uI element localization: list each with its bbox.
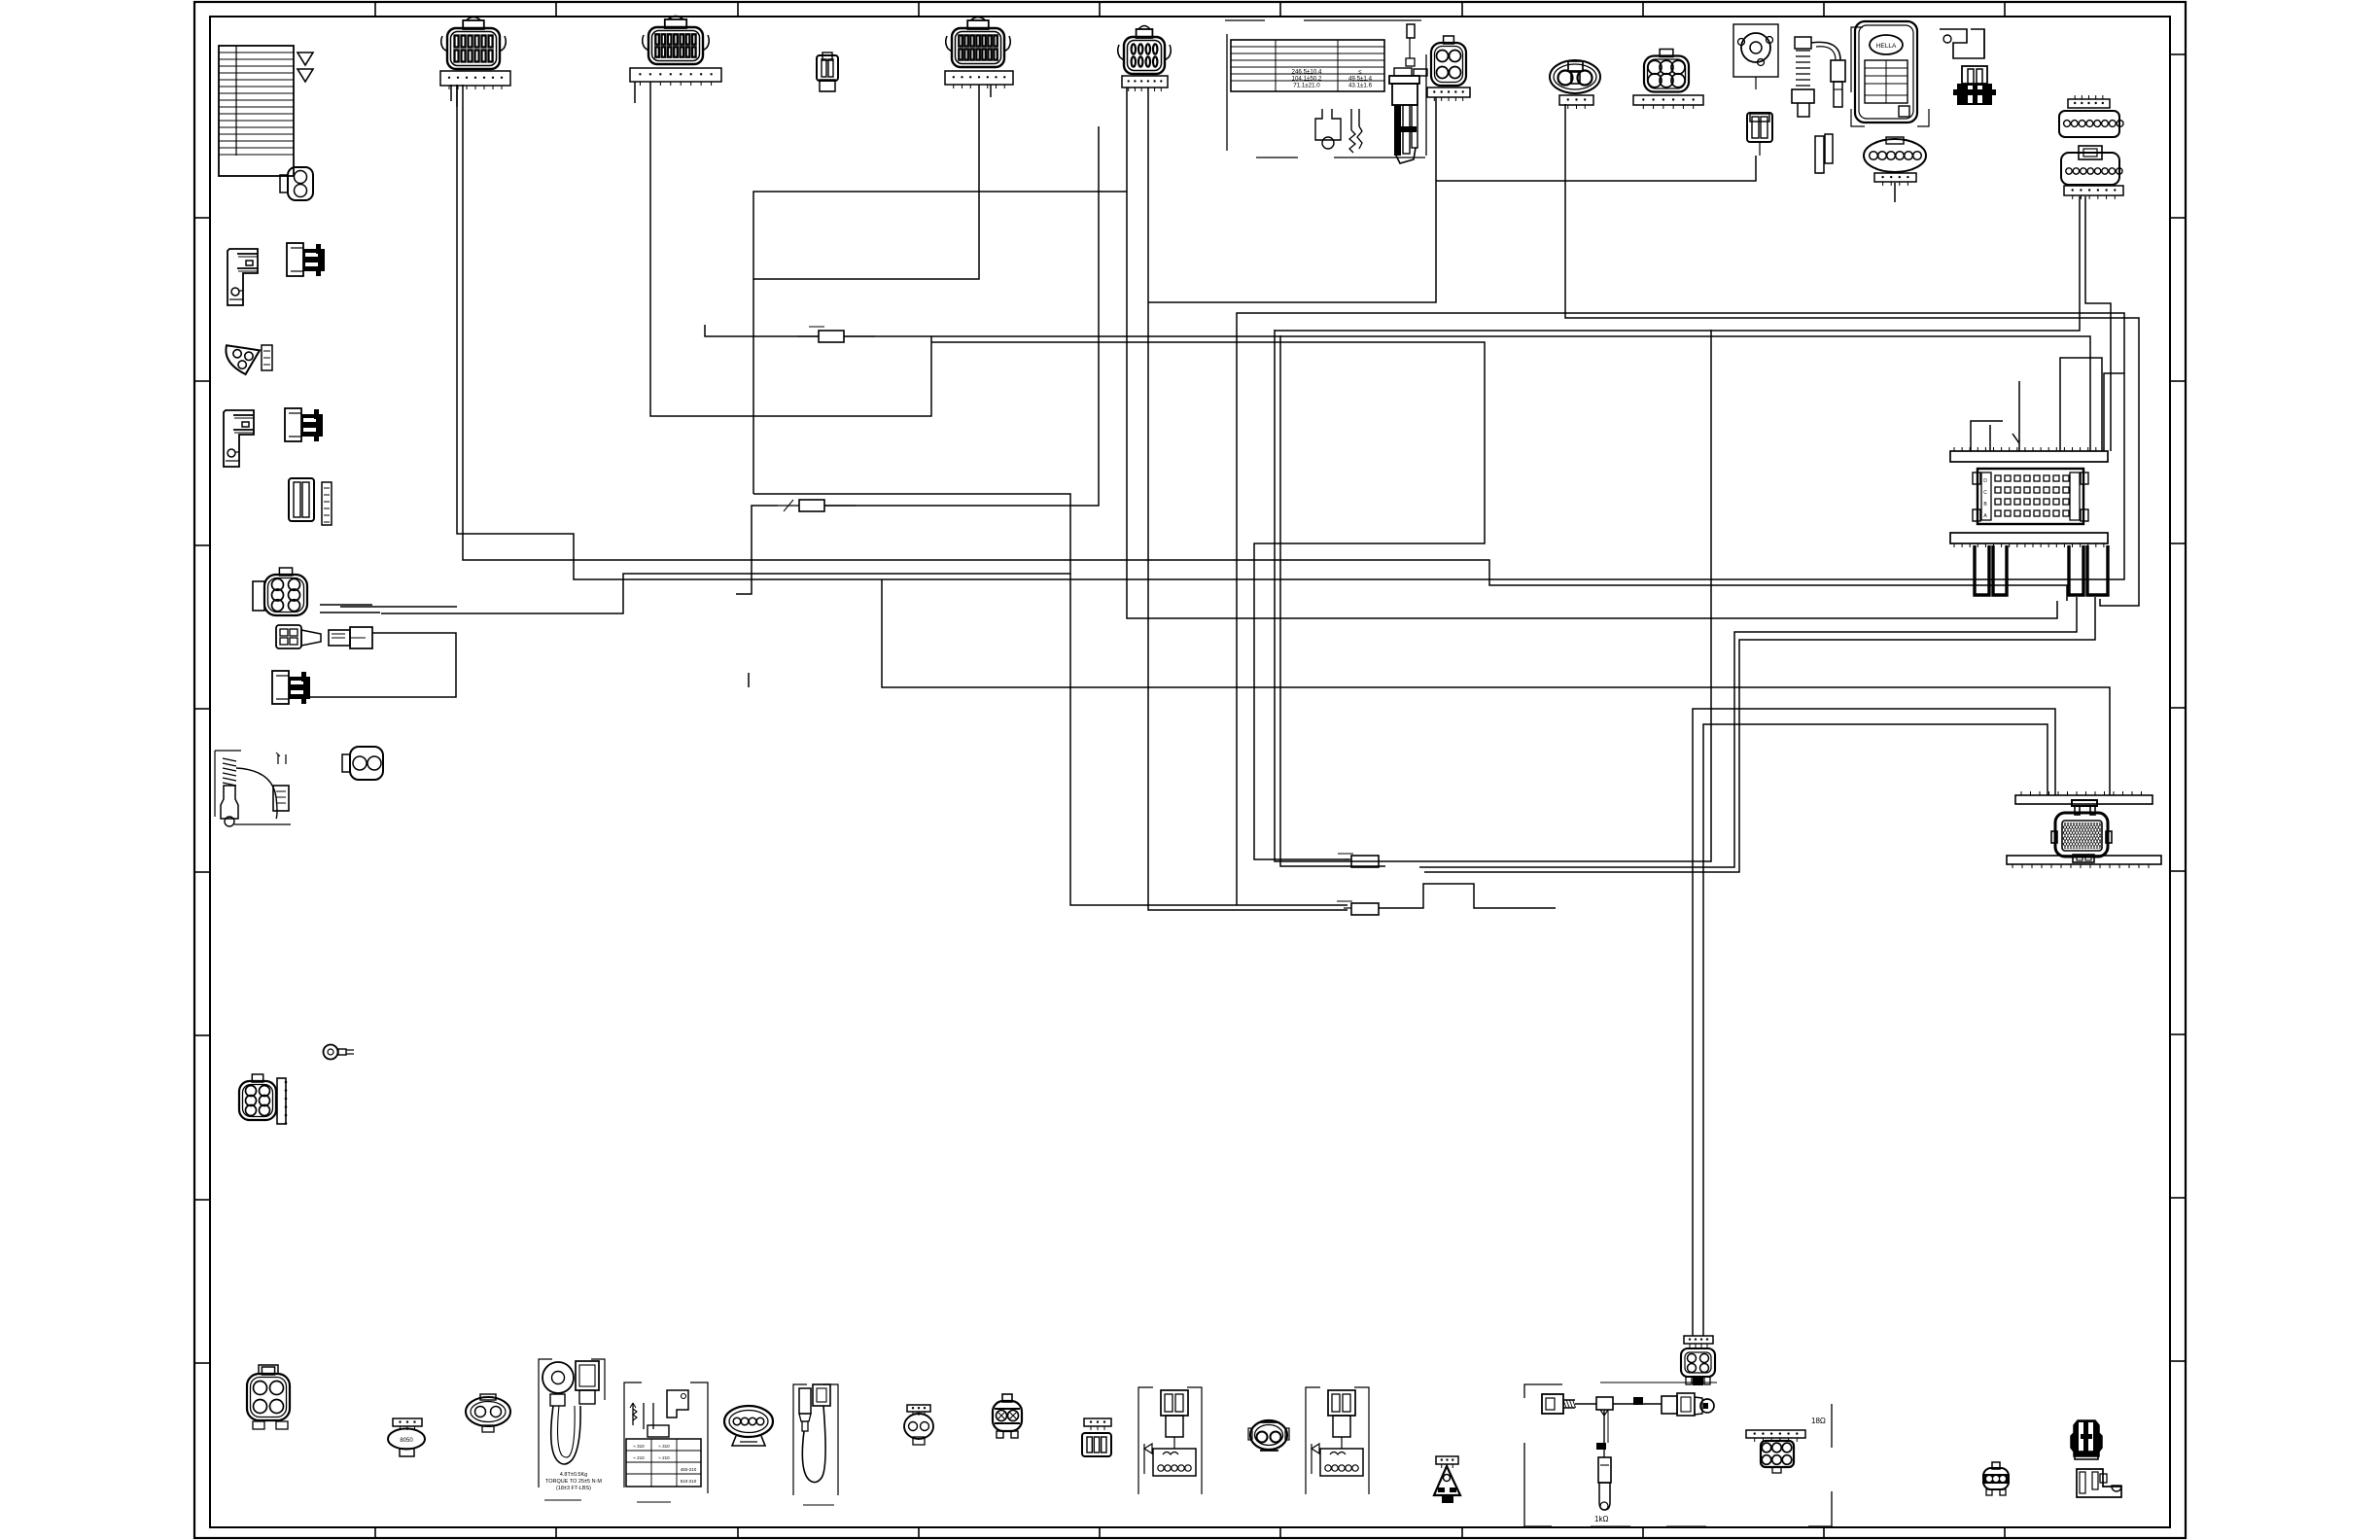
wire w15 hook feed a [1419,597,2077,867]
connector L11 6-pin [239,1074,287,1125]
wire w30 hook mark a [2012,434,2019,443]
connector C30 strip upper [2015,791,2152,804]
svg-text:≤: ≤ [1358,69,1362,76]
terminal strip for C11 [2064,186,2123,199]
wire w5 C5 to C4 bridge [753,85,1127,279]
connector C4 16-pin [946,17,1011,68]
wire w1 C1 to ECU [457,85,2124,579]
knock sensor group [539,1359,605,1500]
wire w13 elbow to C30 a [1693,709,2055,1336]
border fold marks left [194,218,210,1363]
camshaft sensor box [1733,24,1778,89]
wire w11 vertical riser [1381,330,1711,861]
border fold marks right [2170,54,2186,1361]
connector B11b 2-pin oval [1248,1420,1289,1451]
svg-text:≈ 210: ≈ 210 [633,1455,645,1460]
wire w7 C6 drop to splice [1148,97,1436,302]
sensor detail box [624,1382,708,1502]
wire list table [219,46,294,176]
wire w3 C5 to ECU hook [1127,87,2057,618]
connector C7 oval [1550,60,1600,93]
wire w22b hook elbow [1971,421,2003,451]
connector L2 [287,243,325,276]
connector C6 4-pin round [1431,36,1466,86]
splice S2 [1337,901,1379,915]
connector L6 6-pin round [253,568,307,615]
wire w27 L9 zigzag [310,633,456,697]
connector C8 6-pin round [1644,50,1689,92]
connector C1 12-pin [441,17,507,70]
wire stubs C1 [451,85,457,107]
wire stub C9 oval [1894,183,1896,202]
svg-text:450-210: 450-210 [681,1467,697,1472]
connector L1 2-pin round [280,167,313,200]
svg-text:≈ 310: ≈ 310 [658,1444,670,1449]
wire w31 S3 left lead [705,325,819,336]
connector L10 2-pin [342,747,383,780]
splice S3 mid [797,327,875,342]
splice S1 [1338,854,1379,867]
wire w27b lower run [748,673,750,687]
terminal strip for C8 [1633,95,1703,109]
fuel pump module [1389,24,1427,163]
svg-text:4.8T±0.5Kg: 4.8T±0.5Kg [560,1472,587,1478]
revision triangle 2 [297,69,313,82]
terminal strip for C2 [630,68,721,86]
wire w26 left riser b [381,574,1070,613]
fuel pump bracket frame [1225,20,1425,157]
ECU module HELLA [1851,21,1929,126]
spark plug assembly [215,751,291,826]
wire w32 S3 right lead [844,335,931,337]
svg-text:1kΩ: 1kΩ [1594,1515,1608,1523]
connector B6 4-pin oval [724,1406,773,1446]
connector L3 triangle [226,345,260,374]
wire w17 riser pair a [1275,330,1381,861]
ring terminal [324,1045,355,1060]
svg-text:TORQUE TO 25±5 N·M: TORQUE TO 25±5 N·M [545,1479,602,1485]
wire w6 C5 to splice S2 [1148,87,1347,910]
connector C5 8-pin [1118,26,1172,75]
spec table [1231,40,1384,91]
relay bracket [1940,29,1984,58]
svg-text:43.1±1.6: 43.1±1.6 [1348,83,1373,89]
wire w35 C1b long run [463,85,2067,601]
O2 sensor group [793,1384,838,1505]
wire w8 sensor drop [1436,156,1756,181]
svg-text:18Ω: 18Ω [1811,1417,1826,1425]
border fold marks bottom [375,1527,2005,1538]
relay connector [1953,66,1996,105]
wire w33 S4 left lead [736,506,778,594]
svg-text:104.1±50.2: 104.1±50.2 [1292,76,1322,83]
wire w18 riser pair b [1280,335,1385,866]
svg-text:≈ 210: ≈ 210 [658,1455,670,1460]
svg-text:71.1±21.0: 71.1±21.0 [1293,83,1320,89]
connector L5 with strip [289,478,332,525]
wire w34 S4 right lead [824,126,1099,506]
wire w5b elbow drop [752,279,754,494]
connector B8 2-pin [904,1405,933,1445]
terminal strip for C6 [1427,87,1470,101]
connector B1 4-pin round [247,1365,290,1429]
connector C9 oval 6-pin [1864,137,1926,172]
wire w4 C2 to splice S1 [650,82,2090,451]
connector C2 16-pin [643,17,710,65]
crank sensor assembly [1524,1382,1832,1526]
terminal strip above C10 [2068,95,2110,108]
connector L8 mate [329,627,372,648]
wire stubs C4 [990,85,992,97]
svg-text:49.5±1.4: 49.5±1.4 [1348,76,1373,83]
svg-text:246.5±10.4: 246.5±10.4 [1292,69,1322,76]
wire w22 hook staircase [2018,381,2020,451]
wire w23 L6 lead a [320,604,372,606]
connector B15 4-pin [1681,1336,1715,1385]
terminal strip L3 [262,345,272,370]
ECU terminal strip upper [1950,447,2108,462]
ECU ground hook 1 [1975,545,1989,595]
injector group 2 [1306,1387,1369,1494]
filter resistor symbol [1349,109,1362,153]
check valve symbol [1315,109,1341,149]
connector C30 35-pin [2035,800,2118,862]
wire w29 ECU stub [1989,425,1991,451]
wire w9 C7 to ECU hooks [1565,104,2139,606]
wire w19 S1 path [931,342,1485,859]
connector C11 8-pin plug [2061,146,2122,185]
ECU ground hook 4 [2087,545,2108,595]
border fold marks top [375,2,2005,17]
relay R1 [227,249,258,305]
wire w28 S2 right lead [1379,884,1556,908]
connector C30 strip lower [2007,856,2161,868]
terminal strip for C5 [1122,76,1168,91]
connector B16 6-pin [1746,1430,1805,1473]
sensor pigtail connector [1747,113,1772,156]
svg-text:510-210: 510-210 [681,1479,697,1484]
wire w2 elbow to splice S2 [753,494,1347,905]
ECU 40-pin connector block [1973,469,2088,524]
ignition coil with lead [1792,37,1845,117]
connector L9 [272,671,310,704]
revision triangle 1 [297,52,313,65]
svg-text:HELLA: HELLA [1876,43,1897,50]
connector B10 small with strip [1082,1418,1111,1456]
svg-text:8050: 8050 [400,1438,413,1444]
connector B13 triangle [1434,1456,1460,1503]
wire w10 loop to C11 drop [1275,196,2080,331]
connector L7 4-pin square [276,625,321,648]
wire w24 L6 lead b [320,612,380,613]
wire w12 long bus [882,579,2110,795]
wire w20 riser x1272 [1237,313,2124,905]
connector B17 3-pin [1982,1462,2010,1495]
terminal strip for C7 [1559,95,1593,109]
relay R2 [224,410,254,467]
terminal strip for C4 [945,71,1013,88]
connector B3 2-pin oval [466,1394,510,1432]
connector B9 2-pin round [993,1394,1022,1438]
wire w14 elbow to C30 b [1703,724,2047,1336]
wire w16 hook feed b [1424,597,2095,872]
ECU terminal strip lower [1950,533,2108,547]
connector C3 small 2-pin [817,52,838,91]
coil secondary part [1815,134,1833,173]
wire w36 bridge over strip [2060,358,2102,451]
connector L4 [285,408,323,441]
ECU ground hook 3 [2069,545,2083,595]
terminal strip for C9 [1874,173,1916,186]
wire stubs C2 [634,82,636,103]
svg-text:≈ 310: ≈ 310 [633,1444,645,1449]
terminal strip for C1 [440,71,510,89]
connector C10 8-pin header [2059,111,2123,137]
splice S4 mid [778,500,856,511]
connector B2 oval BOSCH [388,1418,425,1456]
ECU ground hook 2 [1993,545,2007,595]
svg-text:C: C [1983,490,1987,496]
wire w21 C11 drop b [2085,196,2111,451]
connector B18 with bracket [2071,1420,2121,1497]
injector group 1 [1138,1387,1202,1494]
svg-text:D: D [1983,478,1987,484]
wire w25 L6 tie [340,606,457,608]
svg-text:(18±3 FT-LBS): (18±3 FT-LBS) [556,1486,591,1491]
